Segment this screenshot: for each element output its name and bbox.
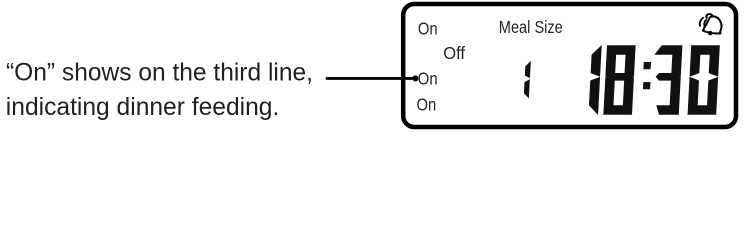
bell clapper ball [708,31,712,35]
alarm bell icon body [703,16,722,33]
svg-text:“On” shows on the third line,: “On” shows on the third line, [6,59,313,87]
svg-text:On: On [418,19,438,39]
svg-text:Off: Off [443,43,465,63]
seven-segment clock digit 0 [688,46,720,115]
svg-text:indicating dinner feeding.: indicating dinner feeding. [6,93,280,121]
seven-segment clock digit 1 [589,46,602,115]
seven-segment clock digit 8 [604,46,636,115]
bell top knob arc [706,14,712,18]
svg-text:On: On [418,69,438,89]
callout leader line [327,77,412,80]
bell ring arc inner [704,20,706,26]
svg-text:On: On [417,95,437,115]
bell ring arc outer [700,18,703,26]
seven-segment clock digit 3 [652,46,682,115]
callout end dot [412,75,418,81]
svg-text:Meal Size: Meal Size [499,17,563,37]
LCD display frame [403,4,736,127]
alarm bell icon [700,14,722,35]
seven-segment meal size digit 1 [524,62,530,98]
clock colon upper dot [644,62,651,69]
clock colon lower dot [643,82,650,89]
